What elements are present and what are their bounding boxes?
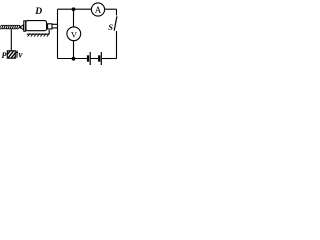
wire: right vertical to switch xyxy=(116,9,118,15)
node: bottom junction xyxy=(72,57,76,61)
spring-to-sensor cone connector xyxy=(19,26,21,28)
sensor support leg xyxy=(48,30,50,34)
svg-text:S: S xyxy=(108,22,113,32)
svg-text:D: D xyxy=(34,7,42,17)
node: top junction xyxy=(72,7,76,11)
wire: right vertical below switch xyxy=(116,31,118,59)
wire: voltmeter bottom lead xyxy=(73,41,75,59)
sensor left end plate xyxy=(24,21,26,31)
wire: top left segment xyxy=(58,8,92,10)
voltmeter U-V xyxy=(67,27,81,41)
switch S blade xyxy=(114,16,117,30)
svg-text:v: v xyxy=(19,50,24,60)
wire: top right segment xyxy=(105,8,117,10)
wire: bottom right segment xyxy=(102,58,117,60)
wire: bottom left segment xyxy=(58,58,88,60)
block P (hatched) xyxy=(7,51,15,58)
battery cell 2 (left) xyxy=(88,52,90,65)
velocity arrow v xyxy=(16,50,18,58)
wire: voltmeter top lead xyxy=(73,9,75,27)
svg-text:A: A xyxy=(95,5,102,15)
force sensor D body xyxy=(26,21,47,31)
wire: between battery cells xyxy=(91,58,99,60)
wire: sensor bottom terminal xyxy=(52,27,58,29)
svg-text:P: P xyxy=(2,51,7,60)
battery cell 1 (right) xyxy=(99,52,101,65)
ammeter U-A xyxy=(91,3,104,16)
spring xyxy=(0,25,20,30)
string from spring to block P xyxy=(10,29,12,51)
wire: left vertical bus xyxy=(57,9,59,58)
sensor right cap xyxy=(48,24,52,29)
wire: sensor top terminal xyxy=(52,23,58,25)
fixed surface under sensor xyxy=(27,33,50,36)
svg-text:V: V xyxy=(71,29,78,39)
